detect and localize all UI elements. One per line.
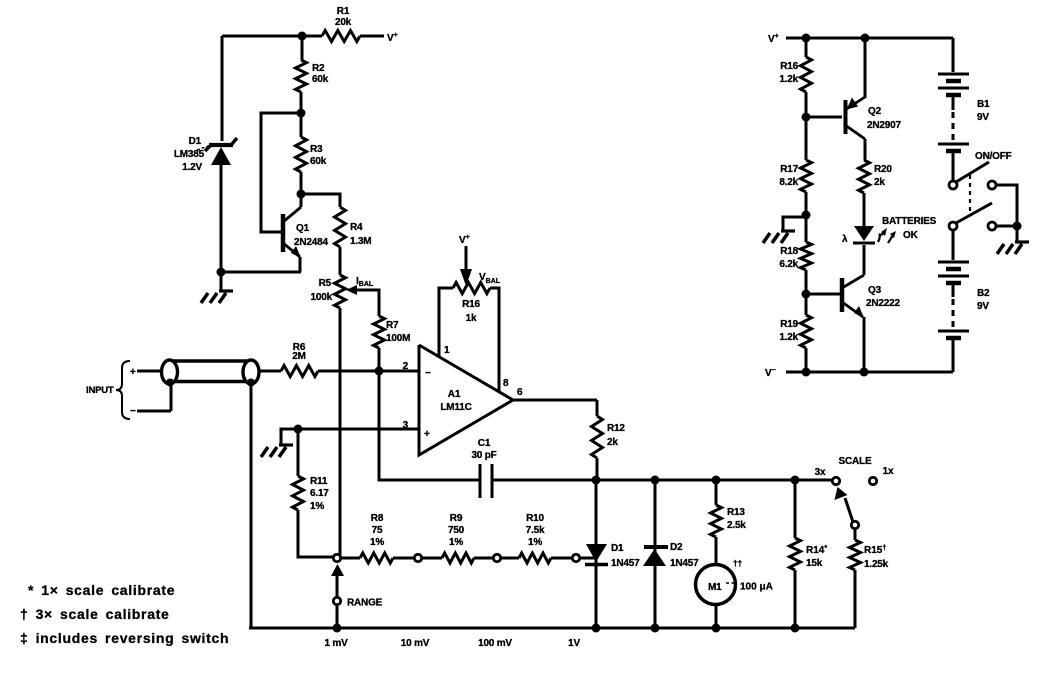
wire C1 left lead (379, 371, 480, 480)
svg-text:20k: 20k (335, 17, 352, 28)
svg-text:A1: A1 (448, 389, 461, 400)
node pin3/R11/ground (294, 425, 303, 434)
wire battery top rail (786, 37, 953, 40)
transistor Q2 2N2907 (845, 38, 901, 160)
tap node 1mV (333, 554, 340, 561)
label BATTERIES OK (882, 216, 937, 241)
svg-text:R12: R12 (607, 423, 625, 434)
svg-text:8: 8 (503, 378, 509, 389)
svg-text:* 1× scale calibrate: * 1× scale calibrate (28, 582, 175, 598)
label 100 mV (478, 638, 512, 649)
label 1V (568, 638, 580, 649)
svg-text:C1: C1 (478, 438, 491, 449)
node shield left (166, 379, 174, 387)
svg-text:R20: R20 (874, 164, 892, 175)
switch RANGE (333, 597, 382, 608)
svg-text:R11: R11 (310, 476, 328, 487)
resistor R14 15k (790, 480, 828, 628)
svg-text:60k: 60k (310, 156, 327, 167)
svg-text:1k: 1k (466, 313, 477, 324)
svg-text:R18: R18 (780, 246, 798, 257)
wire tap4 to D1 (580, 557, 596, 560)
label VBAL (479, 272, 501, 285)
label INPUT (86, 385, 114, 396)
wire Q2 base (806, 116, 842, 119)
node D1/ground/Q1-emitter (217, 268, 226, 277)
wire tap2b (474, 557, 493, 560)
svg-text:6: 6 (517, 387, 523, 398)
svg-text:30 pF: 30 pF (471, 450, 496, 461)
node bus/D2 (651, 476, 660, 485)
svg-text:1x: 1x (883, 466, 894, 477)
svg-text:2N2222: 2N2222 (866, 298, 900, 309)
label 3x (815, 467, 826, 478)
bus bottom (249, 627, 855, 630)
note 3x scale calibrate (20, 606, 170, 622)
diode D1 1N457 (585, 480, 640, 628)
svg-text:††: †† (733, 558, 743, 568)
terminal V- battery rail (765, 367, 776, 379)
resistor R17 8.2k (779, 117, 811, 215)
wire switch to ground (996, 185, 1017, 226)
svg-text:6.17: 6.17 (310, 488, 329, 499)
wire battery bottom rail (786, 371, 953, 374)
svg-text:1: 1 (444, 345, 450, 356)
resistor R16 1.2k battery (779, 38, 811, 117)
svg-text:1.2V: 1.2V (182, 162, 202, 173)
node R2/R3/Q1-base (297, 109, 306, 118)
node R3/Q1-collector/R4 (297, 190, 306, 199)
label D1 LM385 1.2V (174, 136, 208, 173)
svg-text:R5: R5 (319, 278, 332, 289)
wire B1 top lead (952, 38, 955, 72)
svg-text:1%: 1% (310, 501, 324, 512)
svg-text:R16: R16 (780, 61, 798, 72)
svg-text:7.5k: 7.5k (526, 525, 545, 536)
svg-text:6.2k: 6.2k (779, 259, 798, 270)
wire tap3 (501, 557, 519, 560)
svg-text:SCALE: SCALE (839, 456, 872, 467)
wire C1 right lead (492, 479, 596, 482)
label SCALE (839, 456, 872, 467)
svg-text:D1: D1 (611, 543, 624, 554)
wire R20 to LED (863, 193, 866, 226)
svg-text:RANGE: RANGE (347, 598, 383, 609)
switch ON/OFF pole2 (949, 203, 992, 230)
note reversing switch (20, 630, 229, 646)
svg-text:Q3: Q3 (868, 285, 882, 296)
svg-text:−: − (130, 406, 136, 417)
label input minus (130, 406, 136, 417)
input brace (116, 361, 130, 419)
svg-text:9V: 9V (977, 112, 989, 123)
coax shield (162, 360, 260, 384)
op-amp A1 LM11C (403, 345, 523, 455)
svg-text:+: + (424, 429, 430, 440)
svg-text:15k: 15k (806, 558, 823, 569)
svg-text:R13: R13 (727, 507, 745, 518)
switch ON/OFF contact2 (988, 222, 996, 230)
svg-text:1 mV: 1 mV (324, 638, 348, 649)
wire R1 to V+ (360, 35, 384, 38)
tap node 10mV (414, 554, 421, 561)
svg-text:R3: R3 (310, 144, 323, 155)
zener D1 LM385 (205, 138, 237, 272)
potentiometer R16 1k (453, 283, 490, 325)
svg-text:9V: 9V (977, 301, 989, 312)
resistor R3 (296, 113, 327, 194)
node bus/M1 bottom (712, 624, 721, 633)
node bus/D1 bottom (592, 624, 601, 633)
node rail/Q3 emitter (860, 368, 869, 377)
svg-text:1N457: 1N457 (670, 558, 699, 569)
tap node 1V (572, 554, 579, 561)
capacitor C1 30pF (471, 438, 496, 498)
wire tap3b (551, 557, 572, 560)
ground battery divider (763, 217, 806, 243)
label input plus (130, 367, 136, 378)
switch ON/OFF contact1 (988, 181, 996, 189)
svg-text:100 mV: 100 mV (478, 638, 512, 649)
svg-text:‡ includes reversing switch: ‡ includes reversing switch (20, 630, 229, 646)
terminal V+ battery rail (768, 33, 779, 45)
note 1x scale calibrate (28, 582, 175, 598)
node R16b/R17/Q2 base (802, 113, 811, 122)
transistor Q1 2N2484 (283, 194, 328, 272)
svg-text:60k: 60k (312, 74, 329, 85)
potentiometer R5 100k (311, 275, 357, 308)
node pin2/R7/C1 (375, 367, 384, 376)
bus output top (596, 479, 833, 482)
svg-text:−: − (425, 368, 431, 379)
range wiper arrow (331, 564, 344, 597)
label ON/OFF (975, 151, 1012, 162)
node rail/R19 bottom (802, 368, 811, 377)
node switch ground (1013, 222, 1022, 231)
svg-text:2N2484: 2N2484 (294, 237, 328, 248)
resistor R18 6.2k (779, 215, 811, 294)
svg-text:1.2k: 1.2k (779, 74, 798, 85)
node top-rail/R2 (298, 32, 307, 41)
wire R1 left lead (302, 35, 322, 38)
svg-text:LM385: LM385 (174, 149, 205, 160)
svg-text:+: + (130, 367, 136, 378)
node rail/Q2 emitter (861, 34, 870, 43)
label IBAL (356, 276, 374, 288)
wire M1 bottom lead (715, 604, 718, 628)
svg-text:100M: 100M (386, 333, 410, 344)
svg-text:R16: R16 (462, 299, 480, 310)
svg-text:2.5k: 2.5k (727, 520, 746, 531)
wire pin3 lead (298, 428, 419, 431)
resistor R11 6.17 (293, 429, 334, 557)
transistor Q3 2N2222 (842, 245, 900, 372)
meter M1 100uA (696, 558, 773, 605)
svg-text:2: 2 (403, 361, 409, 372)
resistor R2 (296, 36, 329, 113)
tap node 100mV (493, 554, 500, 561)
wire Q3 base (806, 293, 841, 296)
svg-text:R4: R4 (350, 222, 363, 233)
wire pin8 lead (490, 288, 499, 392)
switch gang link (969, 175, 971, 214)
resistor R9 750 1% (442, 513, 474, 563)
arrow V+ to R16 wiper (459, 234, 472, 286)
node bus/D1 (592, 476, 601, 485)
label 1x (883, 466, 894, 477)
battery B2 9V (938, 262, 990, 372)
svg-text:10 mV: 10 mV (401, 638, 430, 649)
svg-text:Q2: Q2 (868, 106, 882, 117)
switch ON/OFF pole1 (949, 162, 989, 189)
svg-text:B1: B1 (977, 99, 990, 110)
node bus/R14 bottom (791, 624, 800, 633)
svg-text:ON/OFF: ON/OFF (975, 151, 1012, 162)
node R17/R18/ground (802, 211, 811, 220)
resistor R15 1.25k (850, 529, 889, 628)
svg-text:1N457: 1N457 (611, 558, 640, 569)
svg-text:2N2907: 2N2907 (867, 120, 901, 131)
svg-text:8.2k: 8.2k (779, 177, 798, 188)
switch contact 3x (832, 477, 839, 484)
svg-text:R10: R10 (526, 513, 544, 524)
svg-text:75: 75 (372, 525, 383, 536)
svg-text:2k: 2k (874, 177, 885, 188)
battery B1 9V (938, 74, 990, 181)
svg-text:R9: R9 (450, 513, 463, 524)
svg-text:R8: R8 (371, 513, 384, 524)
svg-text:1.3M: 1.3M (350, 236, 371, 247)
svg-text:1%: 1% (528, 537, 542, 548)
wire tap2 (422, 557, 442, 560)
terminal V+ top-left (387, 32, 398, 44)
wire top rail left (222, 35, 302, 38)
svg-text:† 3× scale calibrate: † 3× scale calibrate (20, 606, 170, 622)
node R18/R19/Q3 base (802, 290, 811, 299)
svg-text:2k: 2k (607, 437, 618, 448)
svg-text:M1: M1 (708, 582, 722, 593)
wire R4 top lead (301, 194, 340, 207)
node bus/range (333, 624, 342, 633)
svg-text:1%: 1% (370, 537, 384, 548)
wire tap1 (341, 557, 360, 560)
resistor R10 7.5k 1% (519, 513, 551, 563)
svg-text:OK: OK (903, 230, 919, 241)
node rail/R16b (802, 34, 811, 43)
diode D2 1N457 (643, 480, 699, 628)
label 1 mV (324, 638, 348, 649)
label 10 mV (401, 638, 430, 649)
wire R6 to op-amp pin2 (318, 370, 419, 373)
svg-text:750: 750 (448, 525, 465, 536)
wire input plus lead (137, 370, 163, 373)
svg-text:1%: 1% (449, 537, 463, 548)
wire LED to Q3 collector (863, 245, 866, 275)
svg-text:R17: R17 (780, 164, 798, 175)
wire RANGE to bus (336, 604, 339, 628)
svg-text:Q1: Q1 (296, 223, 310, 234)
wire R5 bottom to 1mV tap (339, 308, 342, 556)
wire input minus lead (137, 383, 171, 411)
resistor R12 2k (592, 400, 626, 480)
wire tap1b (393, 557, 414, 560)
resistor R4 (335, 207, 372, 247)
wire coax center (258, 370, 281, 373)
wire Q1 base loop (261, 113, 301, 232)
svg-text:1.2k: 1.2k (779, 332, 798, 343)
svg-text:1V: 1V (568, 638, 580, 649)
wire emitter bus (221, 271, 301, 274)
svg-text:D2: D2 (670, 542, 683, 553)
wire R4 to R5 (339, 247, 342, 275)
LED battery indicator (842, 226, 896, 245)
svg-text:R14*: R14* (806, 545, 827, 556)
node bus/D2 bottom (651, 624, 660, 633)
wire shield to ground bus (250, 381, 253, 628)
svg-text:R7: R7 (386, 320, 399, 331)
switch pole (851, 521, 858, 528)
resistor R20 2k (859, 160, 893, 193)
wire IBAL wiper lead (356, 290, 379, 316)
switch blade SCALE (835, 487, 854, 522)
wire output (513, 399, 597, 402)
svg-text:D1: D1 (189, 136, 202, 147)
resistor R19 1.2k (779, 294, 811, 372)
wire pin1 lead (439, 288, 453, 357)
resistor R13 2.5k (711, 480, 747, 566)
switch contact 1x (869, 477, 876, 484)
wire R7 to pin2 node (378, 348, 381, 371)
resistor R8 75 1% (360, 513, 393, 563)
svg-text:B2: B2 (977, 288, 990, 299)
svg-text:INPUT: INPUT (86, 385, 114, 396)
svg-text:1.25k: 1.25k (864, 559, 889, 570)
node bus/R13 (712, 476, 721, 485)
svg-text:R2: R2 (312, 63, 325, 74)
svg-text:100k: 100k (311, 292, 333, 303)
wire B2 top lead (952, 230, 955, 260)
resistor R1 (322, 6, 360, 42)
resistor R6 2M (281, 342, 318, 377)
svg-text:λ: λ (842, 234, 848, 245)
ground ON/OFF (997, 226, 1029, 254)
svg-text:2M: 2M (292, 351, 306, 362)
svg-text:3x: 3x (815, 467, 826, 478)
node bus/R14 (791, 476, 800, 485)
node shield right (247, 379, 255, 387)
svg-text:100 μA: 100 μA (740, 582, 773, 593)
wire zener top lead (221, 36, 224, 141)
svg-text:LM11C: LM11C (440, 402, 471, 413)
resistor R7 (374, 316, 411, 348)
svg-text:R19: R19 (780, 319, 798, 330)
ground at op-amp pin3 (261, 429, 298, 457)
svg-text:BATTERIES: BATTERIES (882, 216, 937, 227)
svg-text:R1: R1 (337, 6, 350, 17)
ground under D1 (201, 272, 233, 303)
